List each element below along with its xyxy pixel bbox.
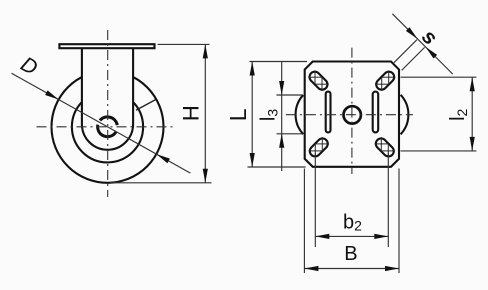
arrow l2 bottom [470, 137, 475, 151]
arrow b2 right [374, 234, 388, 239]
crosses top-right slot [375, 70, 396, 91]
left axle bump [296, 95, 304, 134]
arrow l3 bottom (outside below, pointing up) [279, 134, 284, 148]
right axle bump [401, 95, 409, 135]
corner slot bottom-left [308, 136, 330, 158]
wheel hub circle [72, 91, 143, 162]
svg-text:L: L [225, 108, 251, 121]
wheel outer circle [52, 71, 164, 183]
l2 dimension line [471, 77, 473, 151]
axle circle [100, 117, 117, 125]
dimension line D (diagonal through wheel) [12, 73, 191, 173]
center kingpin circle [344, 106, 361, 123]
l2 top extension line [401, 76, 477, 78]
arrow B left [304, 266, 318, 271]
B dimension line [304, 268, 399, 270]
arrow H bottom [203, 169, 208, 183]
b2 left extension line [314, 153, 316, 247]
s dimension line diagonal [392, 14, 452, 74]
crosses bottom-left slot [309, 137, 330, 158]
l3 dimension line [281, 62, 283, 172]
label l2 [447, 108, 470, 120]
top mounting plate (edge view) [59, 44, 154, 48]
label l3 [258, 109, 281, 121]
arrow B right [385, 266, 399, 271]
centerline horizontal right view [286, 114, 413, 116]
l3 bottom extension line [277, 133, 303, 135]
s extension line lower [402, 47, 425, 70]
H top extension line [158, 43, 210, 45]
arrow l2 top [470, 77, 475, 91]
crosses top-left slot [308, 70, 329, 91]
L dimension line [251, 62, 253, 168]
right vertical slot [373, 92, 379, 133]
b2 right extension line [387, 153, 389, 247]
arrow H top [203, 44, 208, 58]
l2 bottom extension line [401, 150, 477, 152]
arrow b2 left [315, 234, 329, 239]
b2 dimension line [315, 235, 388, 237]
arrow L bottom [250, 153, 255, 167]
tread tick mark upper right [136, 100, 155, 111]
crosses bottom-right slot [375, 137, 396, 158]
centerline horizontal left view [37, 126, 176, 128]
H bottom extension line [110, 182, 212, 184]
arrow D lower [156, 154, 170, 163]
left vertical slot [326, 92, 331, 133]
B left extension line [303, 169, 305, 274]
arrow s lower (pointing up-left) [425, 47, 437, 59]
B right extension line [398, 169, 400, 274]
arrow D upper [45, 90, 59, 99]
plate outline with chamfered corners [305, 62, 399, 167]
centerline vertical right view [351, 48, 353, 174]
svg-text:B: B [344, 243, 357, 265]
corner slot top-right [374, 70, 396, 92]
s extension line upper (tangent to slot side) [394, 40, 417, 63]
arrow s upper (pointing down-right) [406, 27, 418, 39]
centerline vertical left view [107, 30, 109, 197]
arrow L top [250, 62, 255, 76]
corner slot bottom-right [374, 136, 396, 158]
H dimension line [204, 44, 206, 182]
fork bracket (white fill occludes wheel top) [82, 48, 133, 150]
l3 top extension line [277, 94, 303, 96]
svg-text:H: H [179, 105, 204, 121]
L bottom extension line [248, 166, 306, 168]
corner slot top-left [307, 70, 329, 92]
L top extension line [250, 61, 308, 63]
arrow l3 top (outside above, pointing down) [279, 81, 284, 95]
